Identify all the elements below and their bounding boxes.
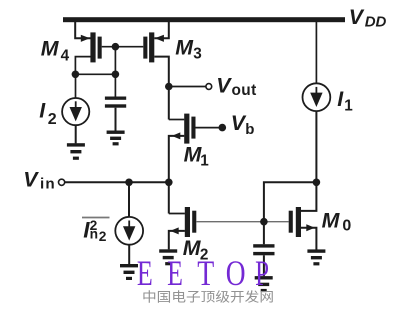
svg-text:in: in [40, 175, 56, 192]
wire M1 drain to Vout line [169, 119, 185, 121]
label M1 [184, 142, 210, 169]
wire M4 source to rail [75, 22, 90, 38]
wire VDD to I1 [315, 22, 317, 83]
terminal Vin open circle [59, 179, 65, 185]
label Vin [23, 167, 56, 192]
current source I2 [62, 98, 89, 125]
svg-text:M: M [322, 208, 341, 232]
svg-text:E: E [137, 253, 153, 293]
node In2 tap [125, 179, 133, 187]
label I1 [337, 87, 353, 115]
svg-text:I: I [337, 87, 344, 111]
wire M4 drain loop [75, 57, 90, 75]
node M0 gate [260, 218, 268, 226]
svg-text:M: M [41, 36, 60, 60]
svg-text:E: E [167, 253, 183, 293]
wire M0 drain up to node [301, 182, 316, 211]
node I1 / M0 drain [313, 179, 321, 187]
current source I1 [303, 83, 331, 111]
power rail VDD [63, 17, 345, 22]
transistor M1 [172, 114, 196, 144]
svg-text:out: out [232, 82, 257, 99]
wire M2 gate to M0 gate [196, 221, 288, 223]
wire Vout stub [169, 86, 206, 88]
wire M0 source to ground [301, 228, 316, 250]
svg-text:n: n [90, 227, 98, 242]
node Vout [165, 83, 173, 91]
label Vb [231, 111, 255, 138]
wire gate node down to capacitor [114, 47, 116, 97]
svg-text:1: 1 [344, 97, 353, 114]
wire I2 to ground [75, 125, 77, 143]
svg-text:I: I [39, 98, 46, 122]
svg-text:3: 3 [193, 46, 202, 63]
ground under In2 [120, 264, 138, 280]
node drain M4 [72, 71, 80, 79]
label M0 [322, 208, 352, 234]
svg-text:V: V [349, 5, 365, 29]
svg-text:V: V [216, 73, 232, 97]
node gate of M4/M3 [112, 43, 120, 51]
wire capacitor to ground [115, 108, 117, 131]
svg-text:1: 1 [200, 153, 209, 170]
transistor M3 [143, 32, 164, 62]
label I2 [39, 98, 57, 128]
svg-text:P: P [255, 253, 269, 293]
svg-text:0: 0 [342, 217, 351, 234]
wire gate node down to capacitor C2 [263, 222, 265, 245]
wire Vin line [65, 181, 169, 183]
capacitor C1 (left) [105, 97, 126, 108]
svg-text:V: V [23, 167, 39, 191]
svg-text:M: M [175, 35, 194, 59]
terminal Vb dot [219, 124, 227, 132]
wire M4 drain node to I2 [75, 74, 77, 98]
terminal Vout open circle [206, 84, 212, 90]
ground under M0 [307, 249, 325, 265]
wire M1 source down to Vin node and M2 drain [169, 136, 185, 214]
label M3 [175, 35, 201, 62]
label M4 [41, 36, 70, 64]
wire M3 source to rail [154, 22, 169, 38]
wire M1 gate stub [196, 127, 223, 129]
label VDD [349, 5, 387, 31]
ground under right capacitor [255, 276, 273, 292]
svg-text:中国电子顶级开发网: 中国电子顶级开发网 [142, 290, 274, 305]
wire M2 drain stub [169, 213, 185, 215]
wire capacitor C2 to ground [263, 255, 265, 276]
svg-text:2: 2 [99, 229, 107, 244]
svg-text:T: T [197, 253, 214, 293]
label In2 with overline [82, 218, 110, 244]
label Vout [216, 73, 256, 99]
transistor M4 [81, 32, 102, 62]
wire I1 to node [315, 111, 317, 182]
wire In2 to ground [128, 245, 130, 265]
svg-text:O: O [226, 253, 246, 293]
current source In2 (noise) [115, 217, 143, 245]
svg-text:DD: DD [365, 14, 387, 31]
transistor M2 [170, 207, 196, 237]
watermark EETOP [137, 253, 269, 293]
svg-text:2: 2 [48, 111, 57, 128]
ground under left capacitor [107, 131, 125, 146]
svg-text:b: b [245, 121, 254, 138]
transistor M0 [289, 207, 315, 237]
capacitor C2 (right) [253, 244, 274, 255]
svg-text:4: 4 [61, 47, 70, 64]
ground under M2 [159, 249, 177, 265]
node capacitor top [112, 71, 120, 79]
label M2 [183, 236, 209, 264]
wire M4 gate to M3 gate [102, 46, 144, 48]
wire Vin node down to In2 source [128, 182, 130, 217]
node Vin junction [165, 179, 173, 187]
wire M2 source to ground [169, 231, 185, 250]
wire gate node up and right to drain node [264, 182, 317, 221]
wire loop horizontal [75, 73, 115, 75]
wire M3 drain down to Vout node [154, 57, 169, 120]
ground under I2 [67, 143, 85, 160]
